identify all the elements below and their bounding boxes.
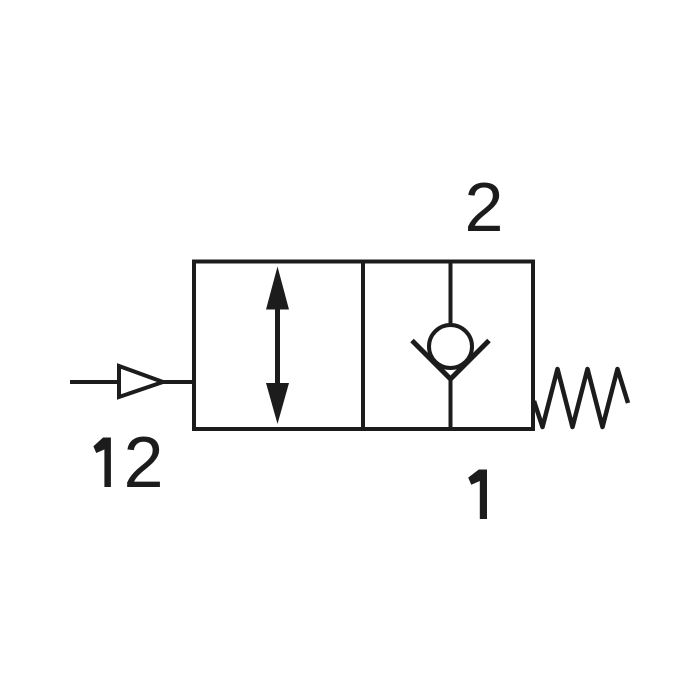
check valve ball bbox=[429, 325, 472, 368]
flow arrow shaft bbox=[275, 305, 280, 388]
svg-text:2: 2 bbox=[124, 423, 164, 503]
check valve inlet line bbox=[449, 261, 453, 327]
pilot line left segment bbox=[70, 380, 119, 384]
valve body outline bbox=[194, 262, 533, 430]
pilot signal triangle bbox=[119, 366, 163, 397]
port label 2 bbox=[465, 168, 504, 246]
return spring bbox=[534, 369, 628, 427]
port label 1 bbox=[468, 470, 487, 520]
check valve outlet line bbox=[449, 377, 453, 429]
check valve seat bbox=[412, 341, 489, 380]
position divider line bbox=[361, 261, 365, 429]
flow arrow top head bbox=[266, 267, 289, 310]
pilot line right segment bbox=[163, 380, 194, 384]
svg-text:2: 2 bbox=[465, 168, 504, 246]
flow arrow bottom head bbox=[266, 383, 289, 424]
port label 12 bbox=[93, 423, 163, 503]
